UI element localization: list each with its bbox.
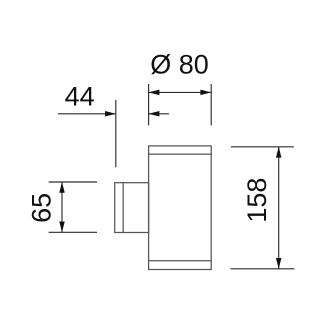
svg-text:158: 158: [242, 178, 272, 223]
svg-text:44: 44: [65, 82, 95, 112]
svg-text:65: 65: [26, 193, 56, 223]
svg-text:Ø 80: Ø 80: [150, 49, 209, 79]
